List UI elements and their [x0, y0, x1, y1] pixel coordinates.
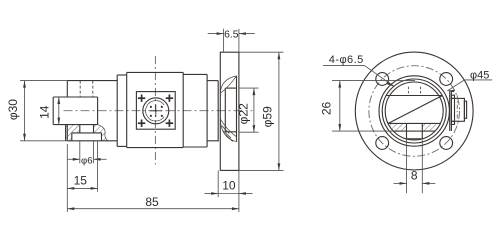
svg-text:26: 26 — [319, 102, 333, 116]
square plate — [136, 92, 175, 130]
label phi45 with leader — [447, 80, 492, 91]
phi30 front cylinder — [67, 81, 117, 141]
hidden port hole (top, dashed) — [80, 81, 93, 97]
flange boss fillet (bottom leaf, hatched) — [220, 119, 236, 142]
vertical centerline of pump body — [154, 56, 156, 165]
mounting flange plate (side view) — [218, 52, 239, 170]
dimension 15 — [67, 142, 97, 213]
phi22 bore in flange — [225, 88, 236, 132]
flange boss fillet (top leaf) — [220, 76, 236, 93]
corner screw cross 3 — [138, 120, 145, 127]
svg-text:14: 14 — [38, 105, 52, 119]
pump body — [127, 72, 184, 147]
svg-text:8: 8 — [411, 168, 418, 182]
svg-text:85: 85 — [145, 195, 159, 209]
dimension phi59 — [239, 52, 284, 170]
shaft (phi14) — [53, 97, 97, 125]
bolt hole bottom-left — [376, 137, 389, 150]
top chord — [386, 95, 442, 97]
neck (phi30) to flange — [207, 81, 218, 141]
bolt hole top-right — [440, 73, 453, 86]
rear cylinder — [183, 74, 207, 147]
dimension phi6 — [68, 141, 107, 164]
second bottom chord — [394, 130, 435, 132]
svg-text:φ45: φ45 — [470, 69, 489, 81]
bottom chord — [388, 122, 440, 124]
svg-text:15: 15 — [74, 174, 88, 188]
label 4-phi6.5 with leader — [323, 66, 394, 87]
hidden dashes above chord — [408, 87, 420, 96]
four small port dots — [150, 106, 163, 117]
main horizontal centerline (side view axis) — [64, 110, 253, 112]
dimension 85 — [67, 170, 239, 212]
corner screw cross 2 — [166, 95, 173, 102]
terminal connector — [450, 91, 467, 131]
diagonal face line — [389, 96, 443, 124]
dimension phi30 — [20, 81, 67, 141]
bolt circle (dash-dot) — [369, 66, 460, 157]
svg-text:φ59: φ59 — [261, 106, 275, 127]
dimension phi22 — [239, 88, 259, 132]
corner screw cross 1 — [138, 95, 145, 102]
bolt hole bottom-right — [440, 137, 453, 150]
port circle outer — [143, 98, 169, 124]
hatch band of bottom section — [387, 123, 436, 131]
corner screw cross 4 — [166, 120, 173, 127]
dimension 8 — [394, 139, 436, 193]
svg-text:φ22: φ22 — [237, 103, 251, 124]
spacer ring — [117, 72, 127, 147]
svg-text:φ6: φ6 — [81, 155, 93, 166]
key slot — [407, 123, 423, 138]
dimension 6.5 — [208, 29, 255, 52]
hatch fills of port section — [66, 125, 108, 141]
flange outer circle phi59 — [355, 52, 473, 170]
dimension 26 — [332, 81, 415, 132]
dimension 10 — [205, 170, 253, 197]
center cross — [150, 105, 162, 117]
port broken-out section (hatched) — [66, 125, 108, 141]
svg-text:6.5: 6.5 — [224, 29, 239, 40]
bolt hole top-left — [376, 73, 389, 86]
svg-text:10: 10 — [222, 179, 236, 193]
connector centerline — [456, 95, 458, 124]
svg-text:φ30: φ30 — [6, 99, 20, 120]
pilot rings — [379, 76, 449, 146]
svg-text:4-φ6.5: 4-φ6.5 — [329, 54, 364, 66]
thread circle (partial) — [142, 97, 170, 125]
dimension 14 — [58, 97, 60, 125]
